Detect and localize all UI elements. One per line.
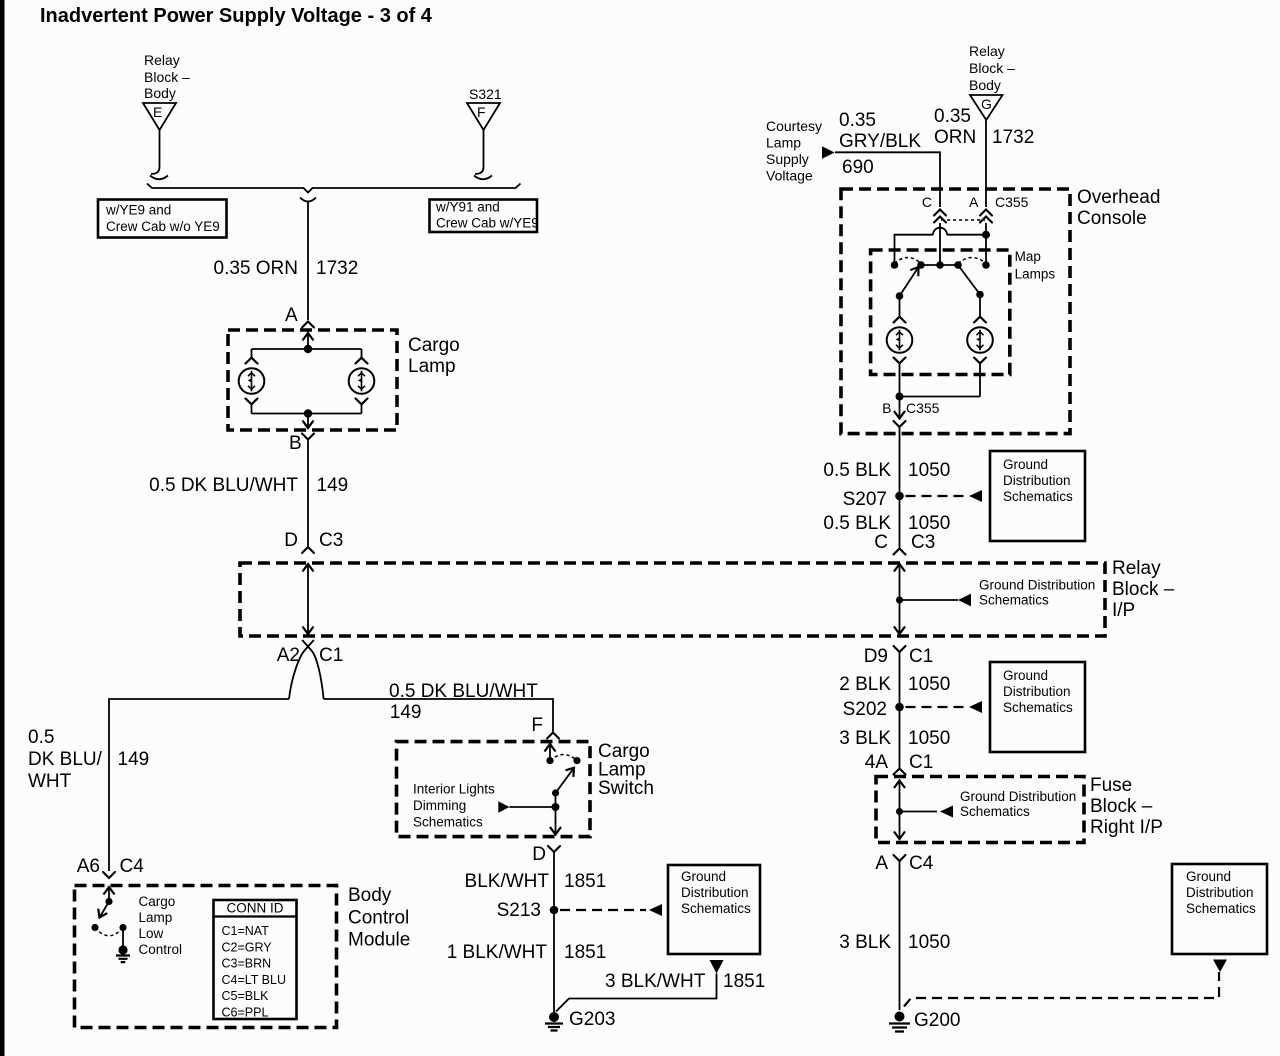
svg-text:Lamp: Lamp: [766, 135, 801, 151]
svg-text:1851: 1851: [723, 971, 765, 992]
svg-text:Lamp: Lamp: [139, 910, 173, 925]
svg-text:1851: 1851: [564, 871, 606, 892]
svg-text:1050: 1050: [908, 674, 950, 695]
svg-text:Body: Body: [969, 77, 1001, 93]
svg-text:690: 690: [842, 157, 874, 178]
svg-text:3 BLK/WHT: 3 BLK/WHT: [605, 971, 706, 992]
svg-text:Schematics: Schematics: [1186, 901, 1256, 916]
svg-text:DK BLU/: DK BLU/: [28, 749, 103, 770]
svg-text:F: F: [477, 104, 486, 120]
svg-text:Schematics: Schematics: [979, 593, 1049, 608]
svg-text:2 BLK: 2 BLK: [839, 674, 891, 695]
svg-text:E: E: [153, 104, 162, 120]
svg-text:A2: A2: [277, 645, 300, 666]
svg-text:C4: C4: [120, 856, 145, 877]
svg-text:Lamp: Lamp: [408, 356, 456, 377]
svg-text:0.5 BLK: 0.5 BLK: [823, 460, 891, 481]
svg-text:0.35 ORN: 0.35 ORN: [214, 258, 298, 279]
svg-text:Crew Cab w/o YE9: Crew Cab w/o YE9: [106, 219, 220, 234]
svg-text:Ground: Ground: [1003, 457, 1048, 472]
svg-text:Ground Distribution: Ground Distribution: [979, 578, 1095, 593]
svg-text:WHT: WHT: [28, 771, 72, 792]
svg-text:C5=BLK: C5=BLK: [222, 989, 270, 1003]
svg-text:Right I/P: Right I/P: [1090, 817, 1163, 838]
svg-text:Low: Low: [139, 926, 164, 941]
svg-text:Control: Control: [348, 908, 409, 929]
svg-text:Interior Lights: Interior Lights: [413, 782, 495, 797]
svg-text:Cargo: Cargo: [408, 335, 460, 356]
svg-text:C355: C355: [995, 194, 1029, 210]
svg-text:0.5 DK BLU/WHT: 0.5 DK BLU/WHT: [389, 681, 538, 702]
svg-text:Distribution: Distribution: [1003, 473, 1071, 488]
svg-text:A: A: [285, 305, 298, 326]
svg-text:C1: C1: [319, 645, 343, 666]
svg-text:B: B: [289, 433, 302, 454]
svg-text:Block –: Block –: [1090, 796, 1153, 817]
svg-text:1050: 1050: [908, 513, 950, 534]
svg-text:1851: 1851: [564, 942, 606, 963]
svg-text:149: 149: [317, 475, 349, 496]
svg-text:C2=GRY: C2=GRY: [222, 940, 273, 954]
svg-text:S213: S213: [497, 900, 541, 921]
svg-text:CONN ID: CONN ID: [227, 901, 284, 916]
svg-text:C3: C3: [911, 532, 935, 553]
svg-text:Schematics: Schematics: [1003, 489, 1073, 504]
svg-text:1050: 1050: [908, 460, 950, 481]
svg-text:Control: Control: [139, 942, 183, 957]
svg-text:Courtesy: Courtesy: [766, 118, 822, 134]
svg-text:C355: C355: [906, 400, 940, 416]
svg-text:1050: 1050: [908, 932, 950, 953]
svg-text:Dimming: Dimming: [413, 798, 466, 813]
svg-text:Schematics: Schematics: [681, 901, 751, 916]
svg-text:C: C: [922, 194, 932, 210]
svg-text:0.5: 0.5: [28, 727, 54, 748]
svg-text:3 BLK: 3 BLK: [839, 728, 891, 749]
svg-text:S202: S202: [843, 699, 887, 720]
svg-text:C: C: [874, 532, 888, 553]
svg-text:Ground: Ground: [681, 869, 726, 884]
svg-text:Relay: Relay: [144, 52, 180, 68]
svg-text:Module: Module: [348, 930, 410, 951]
svg-text:Block –: Block –: [1112, 579, 1175, 600]
svg-text:Ground: Ground: [1003, 668, 1048, 683]
svg-text:w/YE9 and: w/YE9 and: [105, 203, 171, 218]
svg-text:Relay: Relay: [1112, 558, 1161, 579]
svg-text:A: A: [875, 853, 888, 874]
svg-text:Schematics: Schematics: [1003, 700, 1073, 715]
svg-text:ORN: ORN: [934, 127, 976, 148]
svg-text:Switch: Switch: [598, 778, 654, 799]
svg-text:C6=PPL: C6=PPL: [222, 1006, 269, 1020]
svg-text:Ground: Ground: [1186, 869, 1231, 884]
svg-text:Supply: Supply: [766, 151, 809, 167]
svg-text:Distribution: Distribution: [1186, 885, 1254, 900]
svg-text:G: G: [981, 96, 992, 112]
svg-text:1 BLK/WHT: 1 BLK/WHT: [447, 942, 548, 963]
svg-text:D: D: [532, 844, 546, 865]
svg-text:Lamps: Lamps: [1015, 267, 1056, 282]
svg-text:Overhead: Overhead: [1077, 187, 1160, 208]
svg-text:B: B: [882, 400, 891, 416]
svg-text:C4=LT BLU: C4=LT BLU: [222, 973, 287, 987]
svg-text:A6: A6: [77, 856, 100, 877]
svg-text:GRY/BLK: GRY/BLK: [839, 131, 921, 152]
svg-text:C1: C1: [909, 646, 933, 667]
svg-text:G203: G203: [569, 1009, 615, 1030]
svg-text:0.5 DK BLU/WHT: 0.5 DK BLU/WHT: [149, 475, 298, 496]
svg-text:Relay: Relay: [969, 43, 1005, 59]
svg-text:A: A: [969, 194, 979, 210]
svg-text:C1=NAT: C1=NAT: [222, 924, 270, 938]
svg-text:Distribution: Distribution: [681, 885, 749, 900]
svg-text:Schematics: Schematics: [413, 815, 483, 830]
svg-text:Ground Distribution: Ground Distribution: [960, 789, 1076, 804]
svg-text:G200: G200: [914, 1010, 960, 1031]
svg-text:D: D: [284, 530, 298, 551]
svg-text:w/Y91 and: w/Y91 and: [435, 200, 500, 215]
svg-text:1050: 1050: [908, 728, 950, 749]
svg-text:D9: D9: [864, 646, 888, 667]
svg-text:Block –: Block –: [969, 60, 1015, 76]
svg-text:Body: Body: [144, 85, 176, 101]
svg-text:Voltage: Voltage: [766, 168, 813, 184]
svg-text:0.5 BLK: 0.5 BLK: [823, 513, 891, 534]
svg-text:1732: 1732: [992, 127, 1034, 148]
svg-text:4A: 4A: [865, 752, 889, 773]
svg-text:Crew Cab w/YE9: Crew Cab w/YE9: [436, 216, 539, 231]
svg-text:I/P: I/P: [1112, 600, 1135, 621]
svg-text:Schematics: Schematics: [960, 804, 1030, 819]
svg-text:C1: C1: [909, 752, 933, 773]
svg-text:F: F: [531, 715, 543, 736]
svg-text:Cargo: Cargo: [139, 894, 176, 909]
svg-text:S207: S207: [843, 489, 887, 510]
svg-text:149: 149: [118, 749, 150, 770]
svg-text:1732: 1732: [316, 258, 358, 279]
svg-text:Block –: Block –: [144, 69, 190, 85]
svg-text:0.35: 0.35: [839, 110, 876, 131]
svg-text:Map: Map: [1015, 249, 1041, 264]
svg-text:Distribution: Distribution: [1003, 684, 1071, 699]
svg-text:BLK/WHT: BLK/WHT: [465, 871, 550, 892]
svg-text:3 BLK: 3 BLK: [839, 932, 891, 953]
svg-text:Inadvertent Power Supply Volta: Inadvertent Power Supply Voltage - 3 of …: [40, 5, 433, 27]
svg-text:C3: C3: [319, 530, 343, 551]
svg-text:C3=BRN: C3=BRN: [222, 957, 272, 971]
svg-text:0.35: 0.35: [934, 106, 971, 127]
svg-text:Body: Body: [348, 885, 392, 906]
svg-text:C4: C4: [909, 853, 934, 874]
svg-text:149: 149: [390, 702, 422, 723]
svg-text:Console: Console: [1077, 208, 1147, 229]
svg-text:Fuse: Fuse: [1090, 775, 1132, 796]
svg-text:S321: S321: [469, 86, 502, 102]
